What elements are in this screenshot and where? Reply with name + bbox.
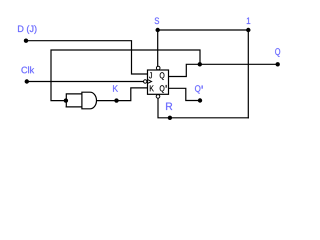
pin label K <box>150 85 154 91</box>
wire Clk node to clock bubble <box>27 81 144 83</box>
junction AND input <box>64 98 68 102</box>
pin label Qp apostrophe <box>166 85 167 88</box>
node S <box>156 28 160 32</box>
wire AND input split upper <box>66 94 82 107</box>
flip-flop U1 clear bubble <box>156 95 160 99</box>
flip-flop U1 clock chevron <box>148 80 152 84</box>
label Clk <box>21 66 34 73</box>
node K <box>114 98 118 102</box>
pin label J <box>149 72 152 78</box>
flip-flop U1 preset bubble <box>156 66 160 70</box>
node Q <box>276 62 280 66</box>
wire Q output <box>169 64 278 76</box>
junction Q feedback <box>198 62 202 66</box>
label R <box>166 103 172 110</box>
node Clk <box>25 79 29 83</box>
label K <box>113 85 118 91</box>
label Q' out <box>195 85 200 93</box>
label D (J) <box>18 25 36 34</box>
wire Q' output <box>169 88 201 100</box>
wire 1 down to bottom rail <box>247 30 249 118</box>
label 1 <box>247 18 250 24</box>
wire AND input split lower <box>66 106 82 108</box>
label S <box>155 17 159 24</box>
wire S down to preset bubble <box>157 30 159 66</box>
wire S to 1 top rail <box>158 29 249 31</box>
wire AND output to K input <box>97 88 148 101</box>
wire D node to J input <box>26 41 148 74</box>
node 1 <box>246 28 250 32</box>
pin label Q <box>160 72 165 80</box>
label Q' out apostrophe <box>202 85 203 88</box>
label Q <box>275 48 280 57</box>
node D <box>24 39 28 43</box>
flip-flop U1 box <box>148 70 169 94</box>
node R <box>168 116 172 120</box>
node Q' <box>198 98 202 102</box>
pin label Qp <box>160 85 165 93</box>
wire bottom rail to clear bubble <box>158 98 248 118</box>
flip-flop U1 clock bubble <box>144 80 147 83</box>
wire Q feedback to AND input <box>51 50 200 101</box>
and-gate A1 body <box>82 92 97 109</box>
